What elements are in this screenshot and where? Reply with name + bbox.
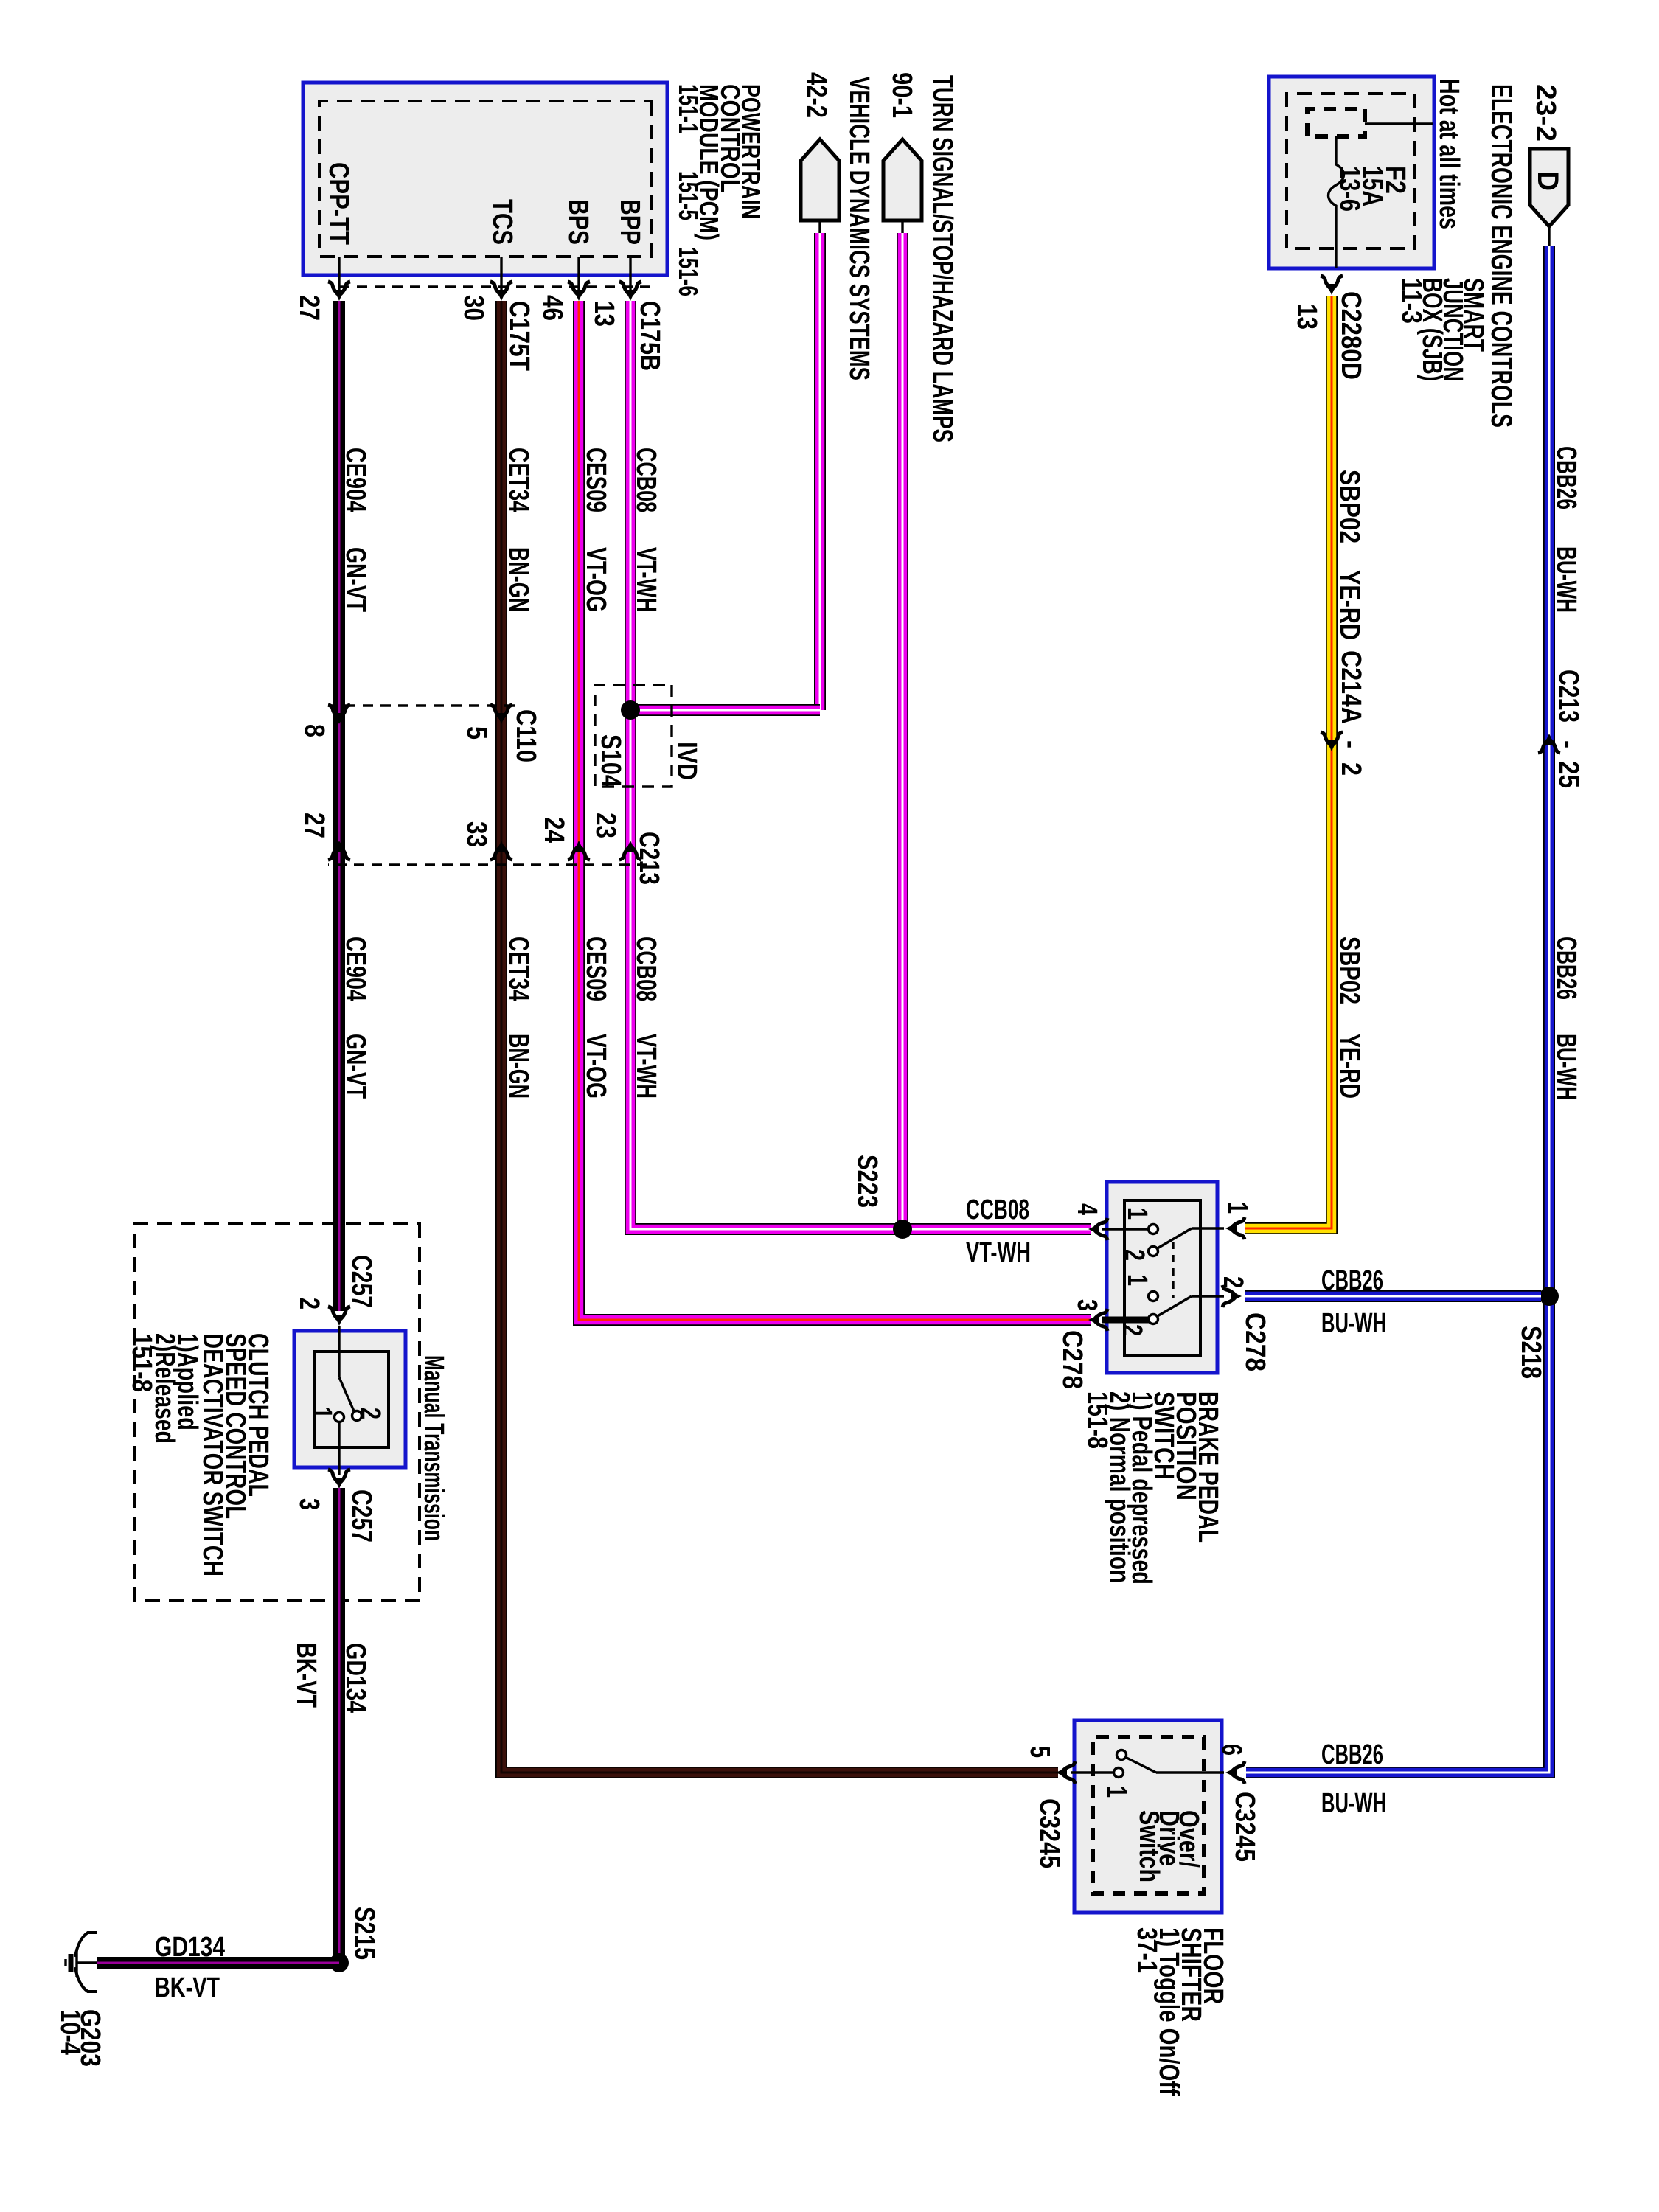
svg-text:YE-RD: YE-RD (1334, 570, 1365, 640)
svg-text:C213: C213 (1553, 669, 1584, 723)
connector C213 pin 25 arrow on CBB26 (1538, 734, 1560, 753)
svg-text:CE904: CE904 (340, 936, 371, 1001)
svg-text:6: 6 (1216, 1744, 1247, 1756)
svg-text:BU-WH: BU-WH (1321, 1308, 1386, 1339)
wire SBP02 YE-RD from SJB (1245, 296, 1332, 1228)
svg-text:CE904: CE904 (340, 448, 371, 512)
C257 pin2 arrow (328, 1307, 350, 1326)
wire CE904 GN-VT from PCM CPP-TT (333, 301, 345, 1311)
svg-text:8: 8 (299, 724, 330, 737)
CLUTCH switch outer dashed box (135, 1223, 420, 1601)
OD pin5 arrow (1056, 1761, 1075, 1784)
BPS pin 3 line bold (1102, 1317, 1150, 1324)
connector C175T arrow pin 30 (490, 282, 512, 301)
fuse F2 15A element (1329, 136, 1344, 268)
svg-text:13-6: 13-6 (1334, 166, 1365, 212)
svg-text:C278: C278 (1057, 1330, 1088, 1389)
splice S218 (1540, 1287, 1559, 1306)
C213 arrow pin 23 (619, 841, 641, 860)
BPS pin 2 line (1192, 1295, 1224, 1297)
svg-text:TURN SIGNAL/STOP/HAZARD LAMPS: TURN SIGNAL/STOP/HAZARD LAMPS (927, 75, 958, 442)
svg-text:SBP02: SBP02 (1334, 470, 1365, 543)
OD blade (1124, 1756, 1156, 1773)
svg-text:CCB08: CCB08 (630, 448, 661, 512)
svg-text:2: 2 (1116, 1324, 1147, 1336)
svg-text:C257: C257 (346, 1489, 377, 1543)
svg-text:24: 24 (538, 817, 569, 843)
svg-text:23: 23 (590, 813, 621, 838)
OD pin 6 entry (1156, 1771, 1224, 1773)
OD contact circle fixed (1114, 1768, 1124, 1778)
C213 arrow pin 24 (568, 841, 590, 860)
svg-text:1: 1 (1101, 1786, 1132, 1798)
wire CET34 BN-GN from PCM TCS (501, 301, 1058, 1773)
svg-text:151-1: 151-1 (673, 84, 703, 133)
connector arrow pin 46 (568, 282, 590, 301)
wire CCB08 VT-WH to vehicle dynamics (814, 233, 826, 710)
svg-text:2: 2 (293, 1298, 324, 1310)
svg-text:BU-WH: BU-WH (1321, 1788, 1386, 1819)
svg-text:C110: C110 (510, 709, 541, 762)
svg-text:151-6: 151-6 (673, 247, 703, 296)
svg-text:BK-VT: BK-VT (155, 1972, 220, 2003)
svg-text:5: 5 (461, 726, 492, 740)
svg-text:C214A: C214A (1335, 650, 1366, 724)
svg-text:25: 25 (1553, 761, 1584, 788)
BPS contact circle 2 (blade tip) (1149, 1247, 1158, 1256)
splice S104 and IVD (595, 685, 672, 787)
BPS pin3 arrow (1088, 1309, 1107, 1331)
C213 arrow pin 27 (328, 841, 350, 860)
svg-text:C257: C257 (346, 1255, 377, 1308)
svg-text:151-8: 151-8 (1082, 1391, 1113, 1449)
svg-text:1: 1 (306, 1407, 337, 1419)
connector C110 dashed line (328, 704, 515, 706)
svg-text:2: 2 (1119, 1249, 1150, 1261)
svg-text:VT-WH: VT-WH (630, 547, 661, 612)
off-page connector D (from 23-2) (1530, 149, 1568, 226)
svg-text:27: 27 (293, 295, 324, 321)
svg-text:33: 33 (461, 821, 492, 847)
wire lead from D arrow (1548, 226, 1550, 246)
svg-text:46: 46 (537, 295, 568, 321)
PCM pin stubs (629, 257, 631, 293)
splice S223 (893, 1220, 912, 1239)
svg-text:1: 1 (1121, 1208, 1152, 1220)
fuse F2 15A dashed box (1307, 109, 1365, 136)
svg-text:C3245: C3245 (1034, 1798, 1065, 1868)
svg-text:27: 27 (299, 813, 330, 838)
lead to VDS arrow (818, 220, 821, 239)
svg-text:Hot at all times: Hot at all times (1433, 79, 1464, 229)
svg-text:CET34: CET34 (503, 448, 534, 512)
svg-text:BK-VT: BK-VT (291, 1643, 321, 1708)
svg-text:S223: S223 (852, 1155, 883, 1208)
svg-text:VT-WH: VT-WH (966, 1237, 1031, 1268)
svg-text:VT-OG: VT-OG (580, 1034, 611, 1099)
svg-text:151-8: 151-8 (126, 1333, 157, 1392)
svg-text:13: 13 (1291, 304, 1322, 330)
clutch contact circle 1 (335, 1413, 344, 1422)
svg-text:C3245: C3245 (1229, 1792, 1260, 1862)
connector C110 arrow pin 8 (328, 705, 350, 724)
clutch pin3 line (338, 1422, 340, 1475)
svg-text:GD134: GD134 (155, 1932, 225, 1963)
svg-text:42-2: 42-2 (801, 72, 832, 118)
BRAKE PEDAL POSITION SWITCH box (1107, 1182, 1217, 1373)
wire GD134 BK-VT to S215 (333, 1488, 345, 1963)
svg-text:CBB26: CBB26 (1551, 446, 1582, 509)
svg-text:11-3: 11-3 (1396, 278, 1427, 324)
svg-text:IVD: IVD (671, 742, 702, 780)
svg-text:VEHICLE DYNAMICS SYSTEMS: VEHICLE DYNAMICS SYSTEMS (844, 77, 874, 380)
clutch switch blue box (294, 1331, 406, 1467)
PCM box POWERTRAIN CONTROL MODULE (303, 83, 667, 275)
ground G203 symbol (77, 1961, 97, 1964)
svg-text:CES09: CES09 (580, 936, 611, 1001)
svg-text:C175T: C175T (504, 301, 535, 371)
connector C2280D arrow pin 13 (1321, 276, 1343, 295)
clutch pin2 line (338, 1326, 340, 1377)
svg-text:13: 13 (588, 301, 619, 327)
svg-text:-: - (1553, 740, 1584, 748)
OD pin 5 line (1071, 1771, 1114, 1773)
OD pin6 arrow (1225, 1761, 1245, 1784)
fuse feed stub from box top (1365, 122, 1433, 125)
BPS mechanical link dashed (1172, 1242, 1174, 1298)
svg-text:2: 2 (355, 1408, 386, 1419)
svg-text:BPS: BPS (563, 199, 594, 245)
clutch blade (339, 1377, 355, 1413)
svg-text:1: 1 (1121, 1274, 1152, 1286)
connector arrow pin 27 (328, 282, 350, 301)
svg-text:4: 4 (1071, 1203, 1102, 1215)
svg-text:-: - (1335, 740, 1366, 748)
BPS pin 4 line (1102, 1228, 1149, 1230)
svg-text:3: 3 (1071, 1299, 1102, 1311)
wire CES09 VT-OG from PCM BPS (579, 301, 1091, 1320)
svg-text:S218: S218 (1515, 1326, 1546, 1379)
svg-text:1: 1 (1222, 1202, 1253, 1214)
svg-text:3: 3 (293, 1498, 324, 1510)
connector C110 arrow pin 5 (490, 705, 512, 724)
svg-text:GN-VT: GN-VT (340, 547, 371, 612)
OVERDRIVE SWITCH box (1074, 1720, 1222, 1913)
connector C213 dashed line (328, 863, 647, 866)
svg-text:S104: S104 (595, 734, 626, 787)
svg-text:90-1: 90-1 (886, 72, 917, 118)
svg-text:CCB08: CCB08 (966, 1194, 1029, 1225)
wire CBB26 BU-WH main run (1246, 246, 1549, 1773)
svg-text:S215: S215 (349, 1907, 380, 1960)
svg-text:CET34: CET34 (503, 936, 534, 1001)
BPS pin4 arrow (1088, 1218, 1107, 1240)
svg-text:2: 2 (1335, 762, 1366, 776)
svg-text:ELECTRONIC ENGINE CONTROLS: ELECTRONIC ENGINE CONTROLS (1485, 84, 1517, 428)
off-page arrow 42-2 VEHICLE DYNAMICS SYSTEMS (801, 139, 839, 220)
svg-text:151-5: 151-5 (673, 171, 703, 220)
svg-text:GD134: GD134 (340, 1643, 371, 1713)
svg-text:30: 30 (458, 295, 489, 321)
BPS contact circle 1b (1149, 1292, 1158, 1301)
BPS contact circle 1 (1149, 1225, 1158, 1234)
svg-text:CCB08: CCB08 (630, 936, 661, 1001)
splice S215 (330, 1953, 349, 1972)
C257 pin3 arrow (328, 1470, 350, 1489)
BPS pin 1 entry (1192, 1227, 1224, 1229)
svg-text:TCS: TCS (487, 199, 518, 245)
SMART JUNCTION BOX (1269, 77, 1434, 268)
BPS pin1 arrow (1225, 1217, 1245, 1239)
lead to TS arrow (901, 220, 903, 239)
connector C214A pin 2 arrow (1321, 732, 1343, 751)
svg-text:CBB26: CBB26 (1321, 1265, 1383, 1296)
BPS blade 2 (1156, 1296, 1192, 1317)
BPS contact circle 2b (blade tip) (1149, 1315, 1158, 1324)
svg-text:CBB26: CBB26 (1321, 1739, 1383, 1770)
svg-text:CES09: CES09 (580, 448, 611, 512)
svg-text:D: D (1531, 171, 1564, 191)
svg-text:VT-OG: VT-OG (580, 547, 611, 612)
C213 arrow pin 33 (490, 841, 512, 860)
connector C175 dashed line (332, 285, 650, 288)
svg-text:Switch: Switch (1133, 1810, 1164, 1882)
clutch contact circle (blade tip) (352, 1411, 362, 1421)
svg-text:GN-VT: GN-VT (340, 1034, 371, 1099)
wire CCB08 VT-WH to turn signal lamps (897, 233, 908, 1224)
BPS blade 1 (1156, 1228, 1192, 1249)
off-page arrow 90-1 TURN SIGNAL/STOP/HAZARD LAMPS (883, 139, 922, 220)
svg-text:C175B: C175B (634, 301, 665, 371)
svg-text:BN-GN: BN-GN (503, 547, 534, 612)
svg-text:10-4: 10-4 (55, 2009, 86, 2055)
svg-text:VT-WH: VT-WH (630, 1034, 661, 1099)
connector C175B arrow pin 13 (619, 282, 641, 301)
svg-text:37-1: 37-1 (1131, 1927, 1162, 1973)
svg-text:BU-WH: BU-WH (1551, 546, 1582, 613)
svg-text:C278: C278 (1239, 1312, 1270, 1371)
svg-text:YE-RD: YE-RD (1334, 1034, 1365, 1099)
svg-text:CBB26: CBB26 (1551, 936, 1582, 1000)
wire CCB08 branch S104 to VDS wire (630, 704, 820, 716)
svg-text:C2280D: C2280D (1335, 291, 1366, 380)
svg-text:CPP-TT: CPP-TT (323, 162, 354, 245)
svg-text:BU-WH: BU-WH (1551, 1034, 1582, 1100)
svg-text:SBP02: SBP02 (1334, 936, 1365, 1004)
svg-text:23-2: 23-2 (1530, 84, 1561, 142)
svg-text:BN-GN: BN-GN (503, 1034, 534, 1099)
wire GD134 ground leg (97, 1957, 339, 1969)
svg-text:BPP: BPP (614, 199, 645, 245)
svg-text:5: 5 (1024, 1746, 1055, 1758)
svg-text:2: 2 (1217, 1276, 1248, 1288)
wire CCB08 VT-WH from PCM BPP (630, 301, 1091, 1229)
wire CBB26 branch S218 to brake switch pin 2 (1245, 1290, 1541, 1302)
BPS pin2 arrow (1222, 1285, 1242, 1307)
OD contact circle (blade tip) (1117, 1750, 1127, 1760)
svg-text:Manual Transmission: Manual Transmission (418, 1355, 449, 1541)
